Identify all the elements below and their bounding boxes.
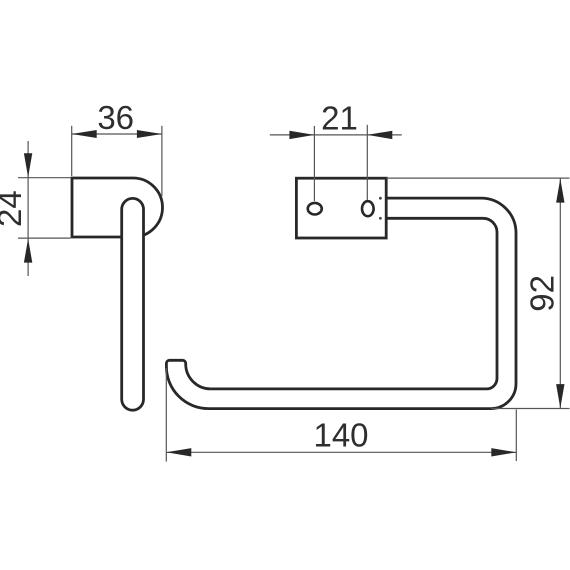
small dot upper [379,197,382,200]
dim 21: right hole centerline [366,125,368,200]
dim 21: left hole centerline [313,126,315,201]
dim 21: left arrow (points right) [289,131,314,139]
dim 36: right arrow [137,130,162,138]
front view: towel ring tube band [166,198,516,409]
svg-text:21: 21 [321,100,358,137]
dim 140: left extension line [165,368,167,462]
dim 36: left arrow [72,130,97,138]
dim 36: dimension line [72,133,162,135]
small dot lower [379,217,382,220]
dim 140: right extension line [515,410,517,462]
svg-text:36: 36 [97,99,134,136]
side view: ring tube (capsule) [122,198,144,410]
mounting hole right [362,201,374,216]
svg-text:24: 24 [0,190,28,227]
svg-text:92: 92 [524,275,561,312]
dim 92: top arrow (points up) [556,179,564,203]
side view: wall plate (D-shape) [72,178,163,237]
dim 24: bottom extension line [18,237,71,239]
dim 140: right arrow (points right) [491,448,516,456]
dim 92: bottom arrow (points down) [556,384,564,408]
dim 36: left extension line [71,126,73,176]
dim 24: bottom arrow (points up) [24,239,32,263]
dim 36: right extension line [161,126,163,196]
dim 92: top extension line [386,177,569,179]
dim 21: dimension line [270,134,402,136]
front view: wall mounting plate [296,178,386,238]
dim 92: bottom extension line [491,408,570,410]
dim 92: dimension line [559,178,561,408]
dim 24: top arrow (points down) [24,153,32,177]
dim 24: dimension line [27,141,29,276]
dim 21: right arrow (points left) [367,131,392,139]
dim 140: dimension line [166,451,516,453]
dim 24: top extension line [18,177,71,179]
dim 140: left arrow (points left) [166,448,191,456]
svg-text:140: 140 [313,417,368,454]
mounting hole left [308,203,322,215]
